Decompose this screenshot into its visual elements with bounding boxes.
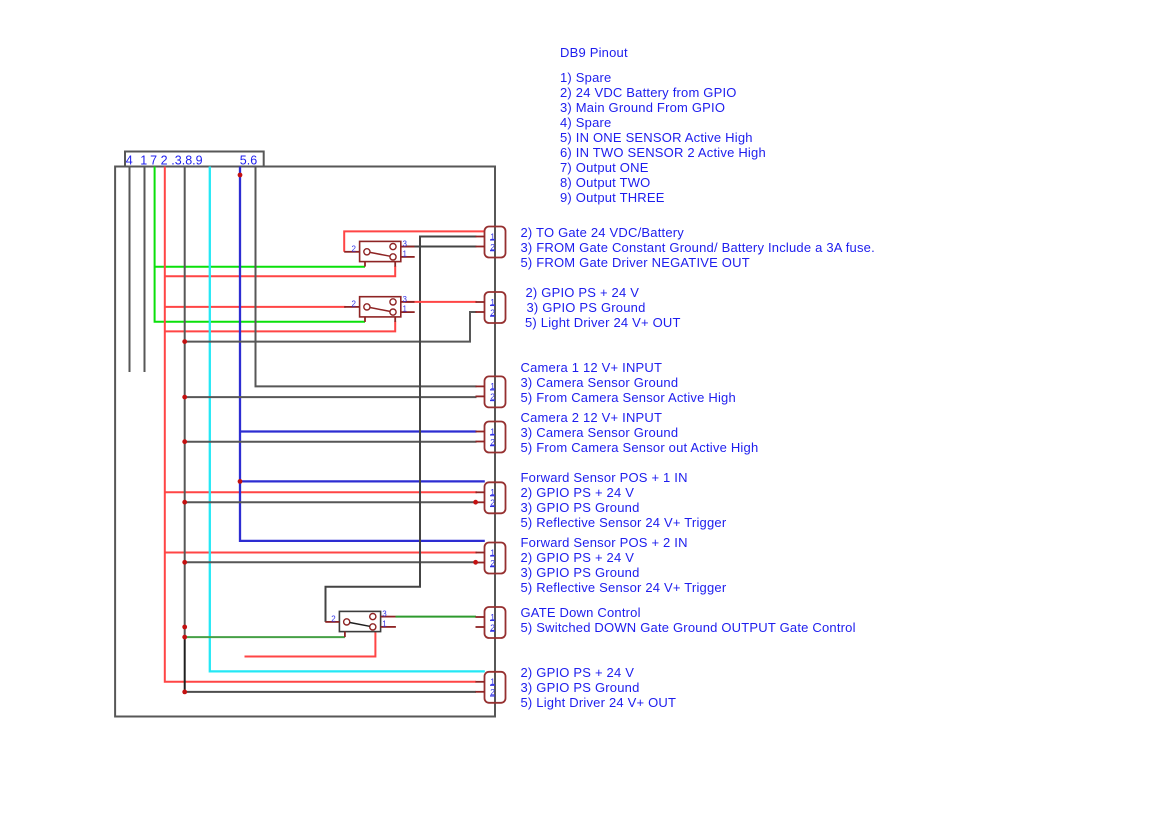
wire green branch to relay K1 coil xyxy=(155,266,365,268)
svg-text:Camera 2 12 V+ INPUT: Camera 2 12 V+ INPUT xyxy=(521,410,663,425)
header connector box xyxy=(125,152,264,167)
wire black ground branch J9 pin2 xyxy=(185,691,476,693)
svg-text:5) From Camera Sensor out Acti: 5) From Camera Sensor out Active High xyxy=(521,440,759,455)
label gate down control connector xyxy=(521,605,856,635)
svg-text:2) GPIO PS + 24 V: 2) GPIO PS + 24 V xyxy=(521,485,635,500)
junction on blue bus below header xyxy=(238,173,243,178)
svg-text:5) Light Driver 24 V+ OUT: 5) Light Driver 24 V+ OUT xyxy=(521,695,677,710)
svg-text:7: 7 xyxy=(150,153,157,167)
wire red branch to connector J6 pin1 xyxy=(165,491,477,493)
svg-text:5) Light Driver 24 V+ OUT: 5) Light Driver 24 V+ OUT xyxy=(525,315,681,330)
svg-text:2: 2 xyxy=(352,244,357,253)
junction forward1 pin2 end xyxy=(473,500,478,505)
svg-text:.3.8.9: .3.8.9 xyxy=(171,153,202,167)
svg-text:2) 24 VDC Battery from GPIO: 2) 24 VDC Battery from GPIO xyxy=(560,85,737,100)
svg-text:1) Spare: 1) Spare xyxy=(560,70,611,85)
label light driver connector xyxy=(521,665,677,710)
header pin labels 4 1 7 2 .3.8.9 xyxy=(126,153,203,167)
label GPIO PS connector xyxy=(525,285,681,330)
svg-text:5) Reflective Sensor 24 V+ Tri: 5) Reflective Sensor 24 V+ Trigger xyxy=(521,580,727,595)
wire bus red pin2 trunk xyxy=(165,167,476,682)
svg-text:3) GPIO PS Ground: 3) GPIO PS Ground xyxy=(521,500,640,515)
wire bus gray pin3 ground trunk xyxy=(184,167,186,638)
svg-text:3) GPIO PS Ground: 3) GPIO PS Ground xyxy=(521,565,640,580)
connector J5 camera 2 xyxy=(476,422,506,453)
svg-text:3: 3 xyxy=(403,295,408,304)
svg-text:2: 2 xyxy=(161,153,168,167)
svg-text:1: 1 xyxy=(403,249,408,258)
relay K3 gate xyxy=(325,611,396,637)
junction forward2 pin2 end xyxy=(473,560,478,565)
svg-text:5.6: 5.6 xyxy=(240,153,257,167)
svg-text:1: 1 xyxy=(140,153,147,167)
connector J5 pin number 1 xyxy=(490,426,495,436)
connector J3 GPIO PS xyxy=(476,292,506,323)
label forward sensor 1 connector xyxy=(521,470,727,530)
connector J9 light driver xyxy=(476,672,506,703)
label camera 2 connector xyxy=(521,410,759,455)
relay K1 xyxy=(344,241,415,266)
connector J5 pin number 2 xyxy=(490,437,495,447)
svg-text:Forward Sensor POS + 2 IN: Forward Sensor POS + 2 IN xyxy=(521,535,688,550)
wire blue branch forward sensor 1 xyxy=(240,480,485,482)
svg-text:3: 3 xyxy=(403,240,408,249)
connector J2 pin number 2 xyxy=(490,242,495,252)
junction ground forward1 branch xyxy=(182,500,187,505)
wire black J2 pin1 gate control xyxy=(326,237,477,622)
connector J2 gate driver xyxy=(476,227,506,258)
svg-text:GATE Down Control: GATE Down Control xyxy=(521,605,641,620)
junction ground light driver out branch xyxy=(182,690,187,695)
connector J7 pin number 2 xyxy=(490,558,495,568)
wire gray ground branch to J2 pin2 xyxy=(185,312,477,342)
wire gray ground branch camera2 pin2 xyxy=(185,441,477,443)
label forward sensor 2 connector xyxy=(521,535,727,595)
junction ground camera1 branch xyxy=(182,395,187,400)
wire red branch K1 coil negative xyxy=(165,266,395,276)
wire red branch to connector J7 pin1 xyxy=(165,552,477,554)
junction ground light driver branch xyxy=(182,339,187,344)
svg-text:3) Main Ground From GPIO: 3) Main Ground From GPIO xyxy=(560,100,725,115)
connector J2 pin number 1 xyxy=(490,231,495,241)
wire red K3 coil negative xyxy=(245,631,376,656)
svg-text:3) Camera Sensor Ground: 3) Camera Sensor Ground xyxy=(521,425,679,440)
svg-text:5) FROM Gate Driver NEGATIVE O: 5) FROM Gate Driver NEGATIVE OUT xyxy=(521,255,750,270)
wire gray ground branch forward2 pin2 xyxy=(185,561,476,563)
wire bus gray pin6 xyxy=(256,167,477,387)
svg-text:1: 1 xyxy=(403,305,408,314)
wire black ground trunk lower xyxy=(184,637,186,692)
svg-text:3) GPIO PS Ground: 3) GPIO PS Ground xyxy=(521,680,640,695)
connector J6 pin number 2 xyxy=(490,498,495,508)
svg-text:3) GPIO PS Ground: 3) GPIO PS Ground xyxy=(527,300,646,315)
wire bus gray pin4 xyxy=(129,167,131,373)
wire red branch K2 pin2 xyxy=(165,306,346,308)
svg-text:8) Output TWO: 8) Output TWO xyxy=(560,175,651,190)
relay K2 xyxy=(344,297,415,322)
svg-text:2) GPIO PS + 24 V: 2) GPIO PS + 24 V xyxy=(521,550,635,565)
svg-text:7) Output ONE: 7) Output ONE xyxy=(560,160,649,175)
label gate driver connector xyxy=(521,225,875,270)
wire blue branch camera2 pin1 xyxy=(240,430,477,432)
wire bus gray pin1 xyxy=(144,167,146,373)
connector J4 pin number 1 xyxy=(490,381,495,391)
wire gray ground branch camera1 pin2 xyxy=(185,396,477,398)
connector J7 forward sensor 2 xyxy=(476,543,506,574)
svg-text:2) GPIO PS + 24 V: 2) GPIO PS + 24 V xyxy=(521,665,635,680)
svg-text:4: 4 xyxy=(126,153,133,167)
svg-text:4) Spare: 4) Spare xyxy=(560,115,611,130)
svg-text:5) IN ONE SENSOR Active High: 5) IN ONE SENSOR Active High xyxy=(560,130,753,145)
svg-text:2: 2 xyxy=(331,614,336,623)
connector J6 forward sensor 1 xyxy=(476,482,506,513)
label camera 1 connector xyxy=(521,360,736,405)
svg-text:DB9 Pinout: DB9 Pinout xyxy=(560,45,628,60)
wire bus cyan xyxy=(210,167,485,672)
connector J8 pin number 2 xyxy=(490,622,495,632)
svg-text:3) Camera Sensor Ground: 3) Camera Sensor Ground xyxy=(521,375,679,390)
svg-text:2: 2 xyxy=(352,299,357,308)
wire green K3 pin3 to J8 pin1 xyxy=(396,616,477,618)
svg-text:5) Switched DOWN Gate Ground O: 5) Switched DOWN Gate Ground OUTPUT Gate… xyxy=(521,620,856,635)
connector J8 pin number 1 xyxy=(490,612,495,622)
connector J4 camera 1 xyxy=(476,376,506,407)
connector J9 pin number 1 xyxy=(490,677,495,687)
wire gray ground branch forward1 pin2 xyxy=(185,501,476,503)
connector J8 gate down control xyxy=(476,607,506,638)
svg-text:5) Reflective Sensor 24 V+ Tri: 5) Reflective Sensor 24 V+ Trigger xyxy=(521,515,727,530)
svg-text:3) FROM Gate Constant Ground/: 3) FROM Gate Constant Ground/ Battery In… xyxy=(521,240,875,255)
svg-text:5) From Camera Sensor Active H: 5) From Camera Sensor Active High xyxy=(521,390,736,405)
wire red branch K2 coil negative xyxy=(165,321,395,331)
connector J6 pin number 1 xyxy=(490,487,495,497)
connector J3 pin number 1 xyxy=(490,297,495,307)
junction ground forward2 branch xyxy=(182,560,187,565)
svg-text:2) GPIO PS + 24 V: 2) GPIO PS + 24 V xyxy=(526,285,640,300)
svg-text:6) IN TWO SENSOR 2 Active High: 6) IN TWO SENSOR 2 Active High xyxy=(560,145,766,160)
connector J3 pin number 2 xyxy=(490,307,495,317)
junction ground gate coil branch xyxy=(182,635,187,640)
connector J7 pin number 1 xyxy=(490,547,495,557)
junction ground camera2 branch xyxy=(182,439,187,444)
svg-text:Camera 1 12 V+ INPUT: Camera 1 12 V+ INPUT xyxy=(521,360,663,375)
svg-text:Forward Sensor POS + 1 IN: Forward Sensor POS + 1 IN xyxy=(521,470,688,485)
connector J4 pin number 2 xyxy=(490,392,495,402)
wire red K2 pin3 to J3 pin1 xyxy=(405,301,477,303)
junction ground at gate pin2 row xyxy=(182,625,187,630)
svg-text:3: 3 xyxy=(382,610,387,619)
wire black K1 pin3 to J2 pin2 xyxy=(406,246,477,248)
wire red K1 pin2 to J2 connector xyxy=(344,231,485,251)
connector J9 pin number 2 xyxy=(490,687,495,697)
enclosure box J1 outline xyxy=(115,167,495,717)
svg-text:9) Output THREE: 9) Output THREE xyxy=(560,190,665,205)
svg-text:1: 1 xyxy=(382,619,387,628)
svg-text:2) TO Gate 24 VDC/Battery: 2) TO Gate 24 VDC/Battery xyxy=(521,225,685,240)
wire green ground to K3 coil xyxy=(185,636,345,638)
wire bus green pin7 xyxy=(155,167,365,322)
junction blue forward1 branch xyxy=(238,479,243,484)
wire bus blue pin5 xyxy=(240,167,485,541)
label DB9 pin list xyxy=(560,70,766,205)
